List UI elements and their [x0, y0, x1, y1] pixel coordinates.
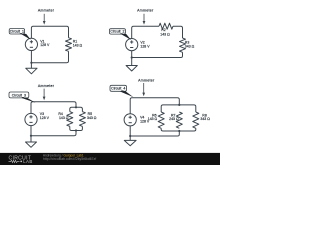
node: top bus junction (circuit 4) [178, 104, 180, 106]
ground (circuit 1) [30, 63, 32, 68]
wire: circuit 3 bottom bus bar [70, 126, 83, 130]
node: junction V2/ground (circuit 2) [131, 56, 133, 58]
svg-text:128 V: 128 V [40, 116, 50, 120]
svg-text:http://circuitlab.com/c/2ky5r6: http://circuitlab.com/c/2ky5r6kd67zf [43, 157, 96, 161]
node: bottom bus junction (circuit 3) [75, 129, 77, 131]
node: bottom bus junction (circuit 4) [178, 130, 180, 132]
ammeter arrow (circuit 4) [143, 83, 145, 93]
svg-text:Ammeter: Ammeter [137, 9, 154, 13]
Circuit_1 pointer wedge [21, 34, 31, 40]
voltage source V2 [131, 51, 133, 58]
node: junction V1/ground (circuit 1) [30, 62, 32, 64]
ammeter arrow (circuit 2) [143, 14, 145, 22]
ground (circuit 4) [129, 136, 131, 140]
svg-text:143 Ω: 143 Ω [73, 43, 83, 47]
resistor R3 zigzag [180, 38, 186, 52]
svg-text:343 Ω: 343 Ω [87, 116, 97, 120]
svg-text:Circuit_3: Circuit_3 [12, 93, 26, 97]
node: junction V3/ground (circuit 3) [30, 135, 32, 137]
Circuit_2 pointer wedge [121, 34, 131, 40]
resistor R5 zigzag [79, 112, 85, 127]
resistor R4 zigzag [67, 112, 73, 127]
voltage source V3 [30, 126, 32, 136]
svg-text:Circuit_1: Circuit_1 [10, 29, 24, 33]
Circuit_4 pointer wedge [120, 91, 134, 97]
wire: circuit 4 top with feed drop [130, 98, 179, 114]
svg-text:143 Ω: 143 Ω [59, 116, 69, 120]
svg-text:Circuit_4: Circuit_4 [111, 87, 125, 91]
Circuit_1 label box [9, 29, 24, 35]
svg-text:Ammeter: Ammeter [38, 9, 55, 13]
wire: circuit 1 top [31, 26, 68, 38]
svg-text:Ammeter: Ammeter [138, 78, 155, 82]
ammeter arrow (circuit 3) [43, 89, 45, 97]
resistor R2 zigzag (horizontal) [159, 23, 173, 29]
svg-text:LAB: LAB [23, 159, 33, 164]
resistor R8 zigzag [193, 112, 199, 128]
Circuit_4 label box [110, 85, 127, 91]
voltage source V1 [30, 51, 32, 63]
wire: circuit 3 top with feed drop [31, 102, 76, 114]
ammeter arrow (circuit 1) [43, 14, 45, 22]
wire: circuit 2 top-left segment [132, 26, 159, 38]
wire: circuit 4 bottom with feed [130, 131, 179, 136]
svg-text:Ammeter: Ammeter [38, 84, 55, 88]
wire: circuit 3 bottom with feed [31, 131, 76, 136]
svg-text:143 Ω: 143 Ω [160, 32, 170, 36]
resistor R6 zigzag [158, 112, 164, 128]
wire: circuit 2 top-right corner down to R3 [173, 26, 183, 38]
wire: circuit 2 bottom [132, 52, 183, 57]
resistor R1 zigzag [66, 38, 72, 52]
node: junction V4/ground (circuit 4) [129, 135, 131, 137]
voltage source V4 [129, 126, 131, 136]
svg-text:143 Ω: 143 Ω [148, 117, 158, 121]
resistor R7 zigzag [176, 112, 182, 128]
svg-text:343 Ω: 343 Ω [185, 45, 195, 49]
CircuitLab logo squiggle + LAB [9, 160, 20, 162]
svg-text:243 Ω: 243 Ω [169, 117, 179, 121]
Circuit_2 label box [109, 29, 125, 34]
Circuit_3 pointer wedge [21, 98, 36, 103]
svg-text:128 V: 128 V [140, 44, 150, 48]
wire: circuit 4 top bus bar [161, 105, 196, 112]
svg-text:343 Ω: 343 Ω [200, 117, 210, 121]
node: top bus junction (circuit 3) [75, 106, 77, 108]
ground (circuit 3) [30, 136, 32, 142]
Circuit_3 label box [9, 92, 29, 98]
wire: circuit 1 bottom [31, 51, 68, 62]
wire: circuit 3 top bus bar [70, 107, 83, 111]
svg-text:Circuit_2: Circuit_2 [110, 30, 124, 34]
svg-text:128 V: 128 V [40, 43, 50, 47]
ground (circuit 2) [131, 58, 133, 66]
wire: circuit 4 bottom bus bar [161, 128, 196, 131]
